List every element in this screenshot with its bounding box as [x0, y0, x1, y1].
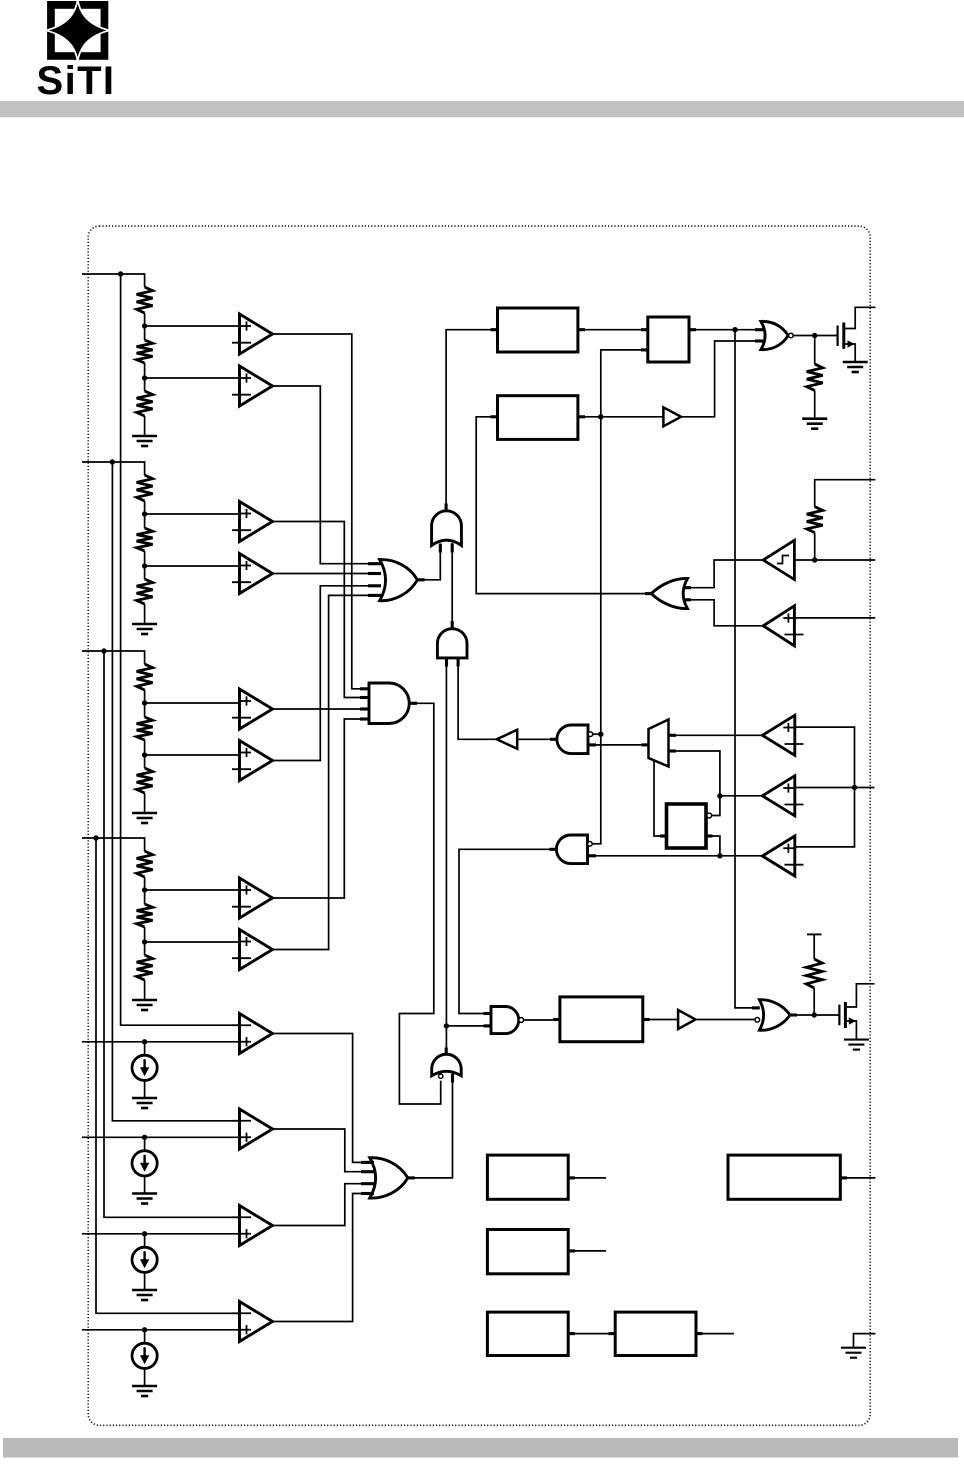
node chain3 entry junction — [101, 648, 106, 653]
ground Q1 source GND — [843, 362, 868, 372]
bubble OR4 inverted input — [439, 1074, 443, 1078]
wire chain1 entry from pin — [82, 274, 145, 287]
wire U18 plus input from pin — [82, 1136, 239, 1138]
comparator U3 — [232, 502, 273, 542]
comparator U8 — [232, 930, 273, 970]
buffer U9 — [663, 407, 681, 426]
wire chain4 R4b-R4c link — [144, 927, 146, 955]
or-gate OR2 (points up) — [432, 511, 462, 546]
wire I4 to ground — [144, 1368, 146, 1386]
wire chain2 tap2 to comparator — [145, 565, 239, 567]
wire U10 input from pin — [794, 559, 875, 561]
resistor R4a — [137, 851, 153, 877]
wire chain2 entry from pin — [82, 462, 145, 475]
or-gate OR1 — [380, 560, 418, 601]
bubble NAND3 output — [519, 1018, 524, 1023]
buffer U12 (points left) — [497, 730, 518, 749]
node sense net junction — [852, 785, 857, 790]
node chain2 tap2 junction — [142, 563, 147, 568]
wire U7 out to AND1 in4 — [273, 719, 370, 898]
node chain2 entry junction — [110, 459, 115, 464]
wire U8 out to OR1 in4 — [273, 595, 381, 949]
wire OR4 out up to AND2 left input, node to NAND3 — [445, 658, 447, 1055]
ground Q2 source GND — [844, 1040, 869, 1050]
ground R5 GND — [802, 419, 827, 429]
node U10 input junction — [812, 557, 817, 562]
node chain4 entry junction — [93, 835, 98, 840]
comparator U7 — [232, 878, 273, 918]
top gray bar — [0, 101, 964, 117]
box BOXD (por block) — [615, 1312, 696, 1355]
node U17 current-source junction — [142, 1039, 147, 1044]
transistor Q2 (NMOS) — [839, 984, 874, 1040]
or-gate OR5 (inverted lower input) — [759, 1000, 790, 1031]
resistor R7 (supply pull-up) — [806, 959, 822, 988]
or-gate OR6 (points left) — [651, 578, 687, 608]
wire OR4 node to NAND3 in2 — [446, 1025, 491, 1027]
bubble NAND1 inverted input — [588, 732, 593, 737]
node BOX2 output junction — [598, 414, 603, 419]
SiTI logo mark — [46, 0, 110, 62]
wire bus chain3 to comparator C minus input — [104, 651, 239, 1217]
ground chain3 GND — [132, 813, 157, 823]
dashed diagram border — [88, 226, 870, 1425]
wire U19 node to current source — [144, 1234, 146, 1247]
wire U15 out to NAND2 in2 — [588, 855, 763, 857]
node chain3 tap1 junction — [142, 700, 147, 705]
resistor R2a — [137, 475, 153, 501]
box BOXB (ref block) — [487, 1230, 568, 1274]
wire R6 top lead to pin — [815, 480, 876, 507]
wire bus chain4 to comparator D minus input — [96, 838, 239, 1313]
wire U13 out to MUX in1 — [669, 734, 763, 736]
resistor R3c — [137, 768, 153, 793]
wire FF1 inverted out to junction — [712, 796, 720, 816]
wire OR6 out to BOX2 input — [476, 417, 651, 594]
box BOXC (uvlo block) — [487, 1312, 568, 1355]
node chain1 entry junction — [118, 271, 123, 276]
comparator U6 — [232, 741, 273, 781]
multiplexer MUX1 — [649, 720, 669, 767]
wire R5 bottom lead — [814, 391, 816, 419]
wire chain1 tap1 to comparator — [145, 325, 239, 327]
wire U18 out to OR3 in2 — [273, 1129, 373, 1172]
and-gate AND1 — [369, 683, 409, 724]
wire U14 out to junction — [720, 795, 763, 797]
wire I2 to ground — [144, 1176, 146, 1194]
ground I4 GND — [132, 1386, 157, 1396]
wire R6 bottom lead — [814, 533, 816, 560]
node chain3 tap2 junction — [142, 752, 147, 757]
wire U11 out to OR6 in2 — [687, 600, 763, 626]
or-gate OR4 (points up, one inverted input) — [432, 1054, 462, 1076]
wire NOR1-in1 net down to OR5 in1 — [735, 330, 756, 1008]
and-gate AND2 (points up) — [437, 629, 467, 658]
resistor R1a — [137, 287, 153, 313]
resistor R1c — [137, 391, 153, 416]
wire BOXA out stub — [568, 1177, 606, 1179]
wire U19 plus input from pin — [82, 1233, 239, 1235]
wire BOXS in2 from BOX2 output net — [592, 350, 647, 844]
wire MUX out to NAND1 in2 — [588, 744, 649, 746]
resistor R1b — [137, 340, 153, 363]
transistor Q1 (NMOS) — [838, 307, 876, 362]
comparator U11 — [763, 606, 803, 646]
wire BOXC out to BOXD — [568, 1333, 615, 1335]
wire chain4 tap2 to comparator — [145, 941, 239, 943]
node U18 current-source junction — [142, 1135, 147, 1140]
node FF1-U15 junction — [717, 853, 722, 858]
wire U20 out to OR3 in4 — [273, 1194, 373, 1322]
nand-gate NAND1 (points left) — [557, 725, 588, 754]
wire U14 input from pin — [795, 787, 875, 789]
bubble FF1 inverted output — [707, 813, 712, 818]
wire chain3 R3b-R3c link — [144, 740, 146, 768]
wire MUX select to FF1 input — [654, 761, 667, 836]
wire OR2 out to BOX1 input — [446, 330, 497, 511]
wire NAND3 out to BOX3 — [524, 1019, 560, 1021]
wire U5 out to AND1 in3 — [273, 708, 370, 710]
ground I1 GND — [132, 1098, 157, 1108]
wire chain4 tap1 to comparator — [145, 889, 239, 891]
current source I1 — [132, 1055, 157, 1080]
wire OR5 out to Q2 gate — [790, 1014, 839, 1016]
current source I2 — [132, 1151, 157, 1176]
wire R7 bottom lead — [813, 988, 815, 1015]
wire chain3 R3c to ground — [144, 793, 146, 813]
wire substrate pin to ground — [854, 1334, 876, 1348]
node NOR1-in1 junction — [732, 327, 737, 332]
wire bus chain1 to comparator A minus input — [121, 274, 239, 1025]
wire U17 out to OR3 in1 — [273, 1034, 373, 1163]
wire NAND2 out to NAND3 in1 — [459, 849, 556, 1013]
node chain1 tap1 junction — [142, 323, 147, 328]
resistor R4c — [137, 955, 153, 980]
node chain2 tap1 junction — [142, 511, 147, 516]
comparator U15 — [762, 836, 803, 876]
wire NAND1 out to buffer U12 — [517, 738, 557, 740]
wire U17 node to current source — [144, 1042, 146, 1055]
resistor R3a — [137, 664, 153, 690]
resistor R2c — [137, 579, 153, 604]
wire AND2 out to OR2 right input — [451, 543, 453, 629]
box BOX2 (second logic block) — [498, 396, 578, 440]
ground I3 GND — [132, 1290, 157, 1300]
wire chain4 R4a-R4b link — [144, 877, 146, 904]
comparator U13 — [762, 715, 803, 755]
wire chain2 R2a-R2b link — [144, 501, 146, 528]
wire chain1 R1b-R1c link — [144, 363, 146, 391]
wire chain2 R2c to ground — [144, 604, 146, 624]
box BOXA (osc block) — [487, 1155, 568, 1199]
wire OR1 out to OR2 left input — [417, 544, 440, 580]
box BOXS (small square block) — [648, 317, 689, 362]
wire chain1 tap2 to comparator — [145, 377, 239, 379]
wire chain3 entry from pin — [82, 651, 145, 664]
wire buffer U16 out to OR5 inverted input — [696, 1019, 755, 1021]
wire R7 top lead to supply tick — [813, 934, 815, 959]
wire NAND1 inverted input stub — [593, 733, 601, 735]
ground substrate GND — [841, 1348, 866, 1358]
ground I2 GND — [132, 1194, 157, 1204]
box BOXE (thermal block) — [728, 1155, 840, 1199]
wire buffer U9 out to NOR1 in2 — [681, 341, 762, 417]
bubble OR5 inverted input — [755, 1018, 760, 1023]
comparator U17 — [232, 1014, 273, 1054]
node U20 current-source junction — [142, 1327, 147, 1332]
wire MUX in2 net from U14/FF1 — [669, 751, 720, 796]
wire bus chain2 to comparator B minus input — [112, 462, 238, 1121]
wire chain3 tap2 to comparator — [145, 754, 239, 756]
wire chain3 R3a-R3b link — [144, 690, 146, 717]
wire BOX3 out to buffer U16 — [643, 1019, 678, 1021]
comparator U2 — [232, 366, 273, 406]
comparator U4 — [232, 554, 273, 594]
schmitt buffer U10 (points left) — [763, 540, 794, 579]
wire BOXD out stub — [696, 1333, 734, 1335]
wire BOX2 out to buffer U9 — [578, 416, 664, 418]
wire chain4 R4c to ground — [144, 980, 146, 1000]
wire U11 input from pin — [794, 617, 875, 619]
comparator U14 — [762, 776, 803, 816]
resistor R4b — [137, 904, 153, 927]
nand-gate NAND2 (points left) — [556, 835, 587, 864]
wire chain2 tap1 to comparator — [145, 513, 239, 515]
wire U3 out to AND1 in2 — [273, 522, 370, 698]
wire BOX1 out to BOXS in1 — [578, 329, 648, 331]
buffer U16 — [678, 1010, 695, 1029]
node chain4 tap2 junction — [142, 939, 147, 944]
node MUX-FF junction — [717, 793, 722, 798]
wire U20 node to current source — [144, 1330, 146, 1343]
wire U13 input from sense net — [795, 727, 855, 847]
resistor R3b — [137, 717, 153, 740]
wire BOXS out to NOR1 in1 — [689, 329, 762, 331]
current source I4 — [132, 1343, 157, 1368]
comparator U5 — [232, 689, 273, 729]
wire BOXB out stub — [568, 1250, 606, 1252]
box BOX3 (delay block) — [560, 997, 643, 1042]
box FF1 (latch) — [667, 804, 707, 848]
wire U17 plus input from pin — [82, 1041, 239, 1043]
wire OR3 out to OR4 right input — [408, 1073, 453, 1178]
comparator U1 — [232, 314, 273, 354]
wire U4 out to OR1 in2 — [273, 573, 381, 575]
wire chain4 entry from pin — [82, 838, 145, 851]
node chain4 tap1 junction — [142, 887, 147, 892]
nand-gate NAND3 — [491, 1007, 519, 1034]
node gate-resistor junction Q1 — [812, 333, 817, 338]
bubble NOR1 output — [789, 333, 794, 338]
wire U18 node to current source — [144, 1137, 146, 1150]
box BOX1 (top logic block) — [498, 308, 578, 352]
node gate-resistor junction Q2 — [812, 1012, 817, 1017]
wire U20 plus input from pin — [82, 1329, 239, 1331]
wire buffer U12 out to AND2 right input — [458, 658, 497, 739]
comparator U18 — [232, 1109, 273, 1149]
wire I3 to ground — [144, 1272, 146, 1290]
bottom gray bar — [3, 1438, 958, 1458]
resistor R2b — [137, 528, 153, 551]
wire NOR1 out to Q1 gate — [793, 335, 837, 337]
node chain1 tap2 junction — [142, 375, 147, 380]
comparator U20 — [232, 1302, 273, 1342]
wire U2 out to OR1 in1 — [273, 386, 381, 564]
supply terminal tick — [807, 933, 822, 935]
resistor R5 (Q1 gate pulldown) — [807, 364, 823, 391]
or-gate OR3 (4-input) — [370, 1158, 408, 1198]
wire chain1 R1a-R1b link — [144, 313, 146, 340]
wire chain2 R2b-R2c link — [144, 551, 146, 579]
node NAND1 inverted-input junction — [598, 732, 603, 737]
wire U10 out to OR6 in1 — [687, 560, 763, 588]
wire chain3 tap1 to comparator — [145, 702, 239, 704]
nor-gate NOR1 — [761, 321, 788, 349]
wire U1 out to AND1 in1 — [273, 334, 370, 689]
wire R5 top lead — [814, 336, 816, 365]
wire U6 out to OR1 in3 — [273, 586, 381, 761]
node U19 current-source junction — [142, 1231, 147, 1236]
wire I1 to ground — [144, 1080, 146, 1098]
ground chain1 GND — [132, 436, 157, 446]
wire chain1 R1c to ground — [144, 416, 146, 436]
svg-text:SiTI: SiTI — [37, 59, 116, 103]
wire AND1 out jog to OR4 inverted input — [399, 703, 440, 1104]
resistor R6 (pull-up) — [807, 507, 823, 533]
comparator U19 — [232, 1206, 273, 1246]
ground chain4 GND — [132, 1000, 157, 1010]
node OR4-out junction — [444, 1023, 449, 1028]
bubble NAND2 inverted input — [588, 842, 593, 847]
wire U19 out to OR3 in3 — [273, 1184, 373, 1226]
wire FF1 bottom out to U15 net — [706, 836, 720, 856]
pin stubs on gates and blocks — [360, 330, 847, 1334]
wire BOXE out to pin — [840, 1177, 875, 1179]
ground chain2 GND — [132, 624, 157, 634]
current source I3 — [132, 1247, 157, 1272]
